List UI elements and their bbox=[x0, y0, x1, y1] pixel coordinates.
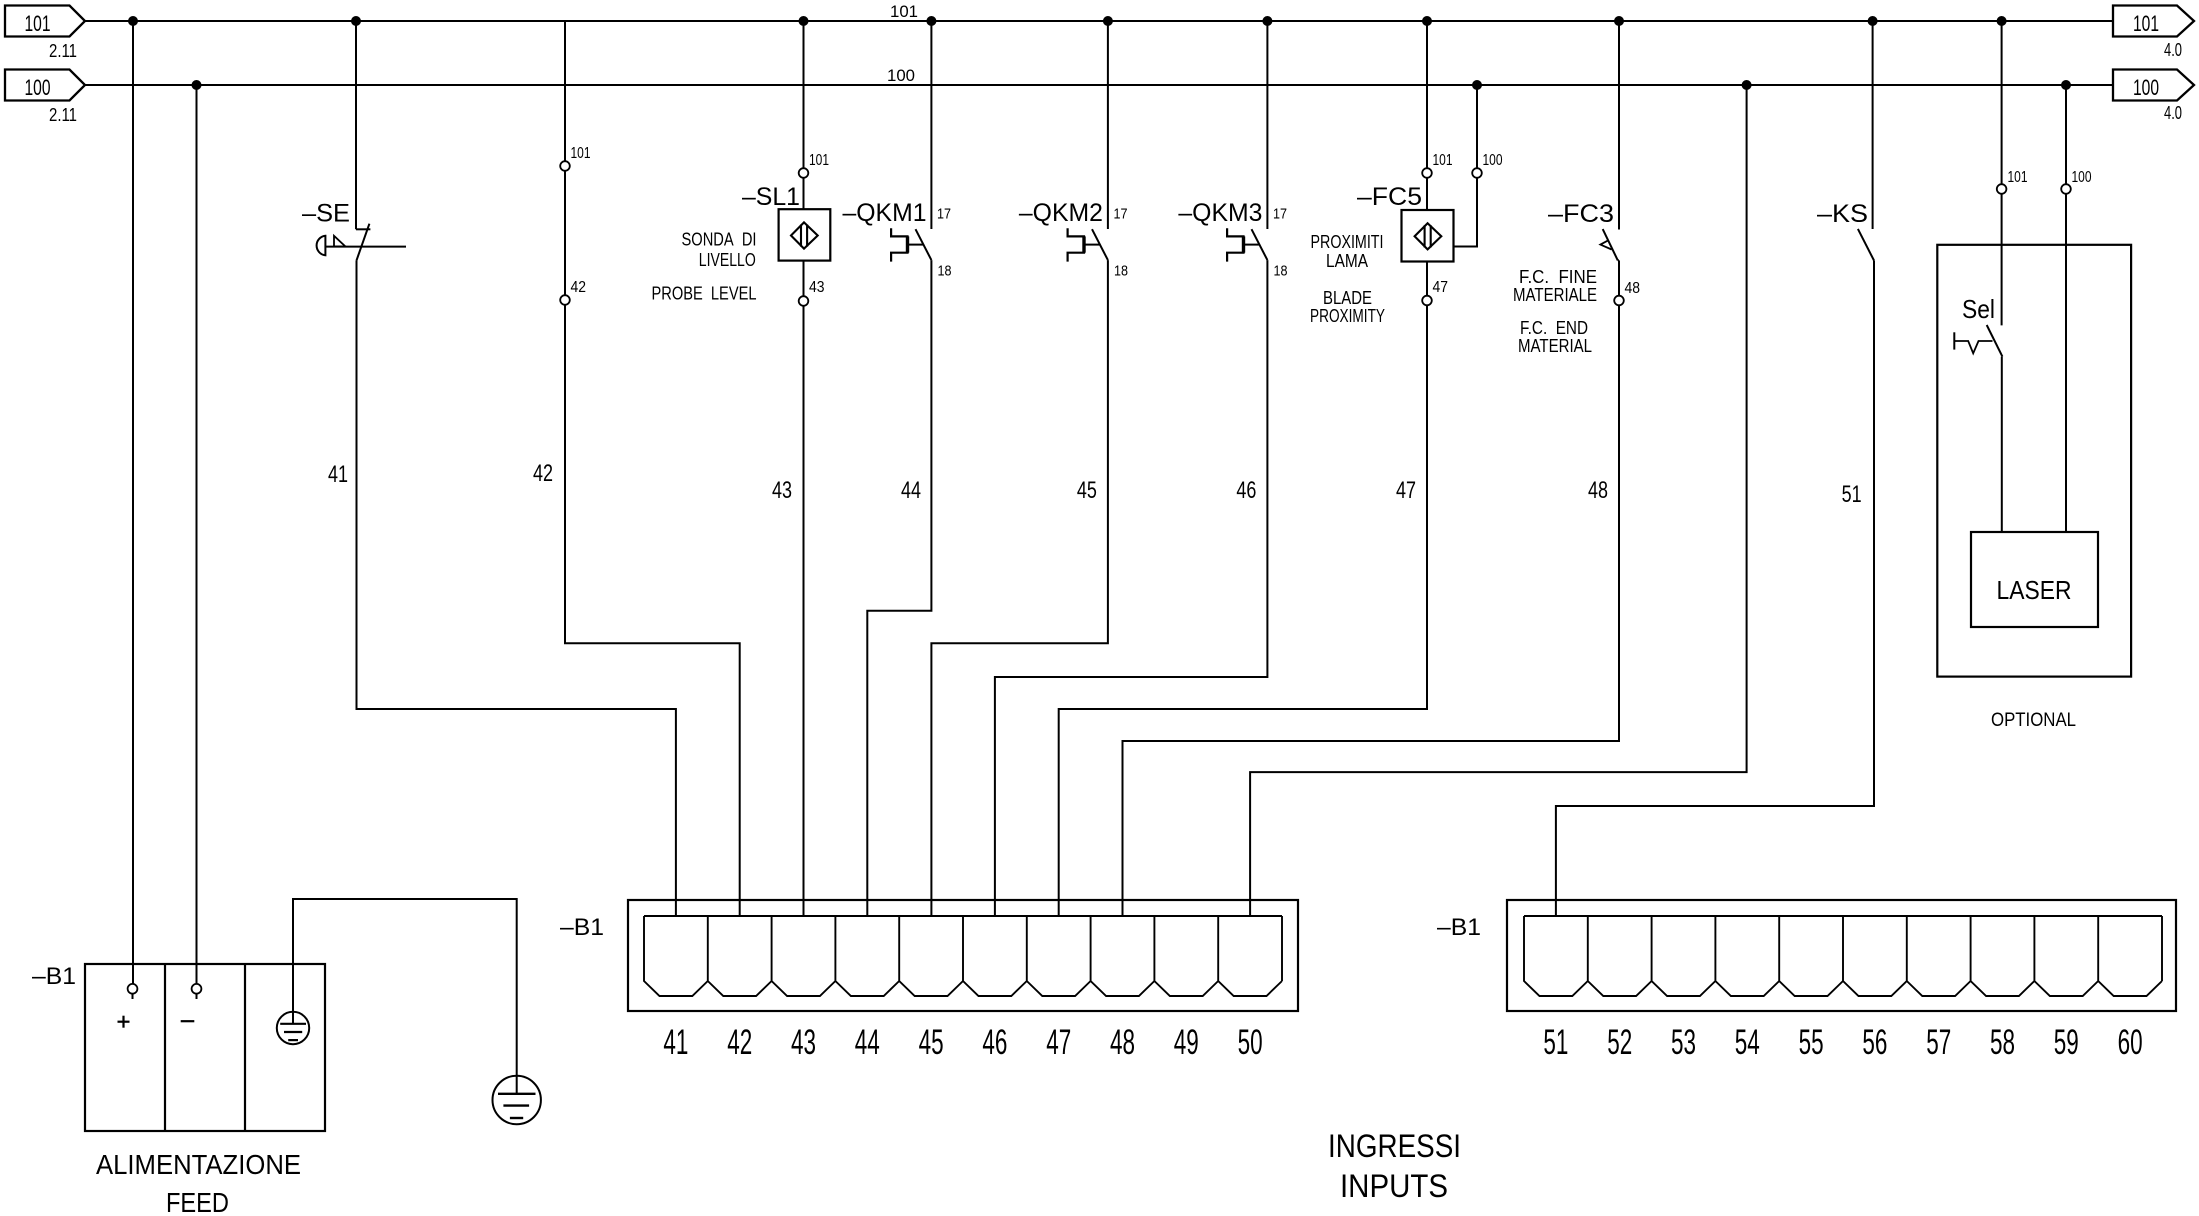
junction bus101 / SE bbox=[351, 16, 361, 26]
wire 48 (FC3 to terminal 48) bbox=[1123, 305, 1620, 916]
svg-text:INGRESSI: INGRESSI bbox=[1328, 1128, 1461, 1164]
plug label 43 bbox=[809, 279, 825, 296]
minus sign (B1 -) bbox=[181, 1020, 195, 1022]
svg-text:LAMA: LAMA bbox=[1326, 251, 1368, 271]
svg-text:MATERIAL: MATERIAL bbox=[1518, 336, 1592, 356]
svg-text:LIVELLO: LIVELLO bbox=[699, 250, 756, 270]
plug connector 48 bbox=[1614, 296, 1624, 306]
svg-text:18: 18 bbox=[1114, 263, 1128, 280]
plug connector 43 bbox=[799, 296, 809, 306]
svg-text:LASER: LASER bbox=[1997, 575, 2072, 605]
svg-text:–QKM1: –QKM1 bbox=[843, 199, 927, 227]
plug connector 101 (SL1) bbox=[799, 168, 809, 178]
label -QKM1 bbox=[843, 199, 927, 227]
terminal comb 41-50 bbox=[644, 916, 1282, 996]
caption OPTIONAL bbox=[1991, 710, 2076, 731]
junction bus100 / feed - bbox=[192, 80, 202, 90]
svg-text:46: 46 bbox=[982, 1023, 1007, 1062]
plug connector 42 bbox=[560, 295, 570, 305]
svg-text:44: 44 bbox=[855, 1023, 880, 1062]
svg-text:48: 48 bbox=[1625, 280, 1641, 297]
label -KS bbox=[1817, 200, 1868, 228]
svg-text:–B1: –B1 bbox=[1437, 914, 1481, 941]
terminal number 45 bbox=[919, 1023, 944, 1062]
svg-text:PROBE LEVEL: PROBE LEVEL bbox=[652, 284, 757, 304]
motor breaker aux contact QKM3 bbox=[1227, 21, 1267, 262]
wire KS upper bbox=[1872, 21, 1874, 229]
svg-text:58: 58 bbox=[1990, 1023, 2015, 1062]
wire 51 (KS to terminal 51) bbox=[1556, 261, 1874, 917]
svg-text:F.C. FINE: F.C. FINE bbox=[1519, 267, 1597, 287]
wire FC5 box to plug 47 bbox=[1426, 262, 1428, 296]
motor breaker aux contact QKM2 bbox=[1068, 21, 1108, 262]
svg-text:2.11: 2.11 bbox=[49, 105, 77, 125]
caption LIVELLO bbox=[699, 250, 756, 270]
pin label 17 (QKM2) bbox=[1114, 206, 1128, 223]
terminal number 53 bbox=[1671, 1023, 1696, 1062]
svg-text:PROXIMITY: PROXIMITY bbox=[1310, 306, 1385, 326]
svg-text:F.C. END: F.C. END bbox=[1520, 318, 1588, 338]
terminal number 48 bbox=[1110, 1023, 1135, 1062]
bus net label 100 bbox=[887, 66, 915, 85]
svg-text:48: 48 bbox=[1588, 477, 1608, 504]
caption INGRESSI bbox=[1328, 1128, 1461, 1164]
svg-text:17: 17 bbox=[937, 206, 951, 223]
terminal number 59 bbox=[2054, 1023, 2079, 1062]
plug label 101 (FC5) bbox=[1433, 152, 1453, 169]
plus sign (B1 +) bbox=[118, 1016, 130, 1028]
wire laser 100 lower bbox=[2065, 194, 2067, 532]
wire FC3 to plug 48 bbox=[1618, 260, 1619, 295]
svg-text:Sel: Sel bbox=[1962, 294, 1995, 324]
wire FC5 100 to box bbox=[1454, 178, 1478, 247]
svg-text:2.11: 2.11 bbox=[49, 41, 77, 61]
wire Sel to laser bbox=[2001, 357, 2003, 532]
svg-text:48: 48 bbox=[1110, 1023, 1135, 1062]
svg-text:FEED: FEED bbox=[166, 1187, 229, 1216]
wire number 46 bbox=[1236, 477, 1256, 504]
svg-text:100: 100 bbox=[25, 75, 51, 100]
junction bus101 / QKM3 bbox=[1262, 16, 1272, 26]
wire FC5 100 upper bbox=[1476, 85, 1478, 168]
pin label 18 (QKM3) bbox=[1274, 263, 1288, 280]
bus net label 101 bbox=[890, 2, 918, 21]
svg-text:44: 44 bbox=[901, 477, 921, 504]
svg-text:18: 18 bbox=[938, 263, 952, 280]
svg-text:101: 101 bbox=[809, 152, 829, 169]
net arrow 101 left (from 2.11) bbox=[5, 6, 85, 37]
svg-text:51: 51 bbox=[1842, 481, 1862, 508]
terminal number 42 bbox=[727, 1023, 752, 1062]
svg-text:–FC5: –FC5 bbox=[1357, 183, 1422, 211]
svg-text:4.0: 4.0 bbox=[2164, 40, 2182, 60]
svg-text:47: 47 bbox=[1046, 1023, 1071, 1062]
caption PROXIMITI bbox=[1311, 232, 1384, 252]
plug label 101 (wire 42) bbox=[571, 145, 591, 162]
junction bus101 / KS bbox=[1868, 16, 1878, 26]
svg-text:101: 101 bbox=[571, 145, 591, 162]
svg-text:52: 52 bbox=[1607, 1023, 1632, 1062]
terminal number 57 bbox=[1926, 1023, 1951, 1062]
wire feed + (101 to B1) bbox=[132, 21, 134, 984]
svg-text:–KS: –KS bbox=[1817, 200, 1868, 228]
wire number 45 bbox=[1077, 477, 1097, 504]
selector contact Sel bbox=[1954, 325, 2002, 357]
sheet ref 2.11 (net 100) bbox=[49, 105, 77, 125]
plug label 42 bbox=[571, 279, 587, 296]
wire SL1 box to plug 43 bbox=[803, 261, 805, 297]
junction bus101 / Sel bbox=[1997, 16, 2007, 26]
wire number 41 bbox=[328, 461, 348, 488]
caption PROXIMITY bbox=[1310, 306, 1385, 326]
svg-text:53: 53 bbox=[1671, 1023, 1696, 1062]
svg-text:18: 18 bbox=[1274, 263, 1288, 280]
svg-text:42: 42 bbox=[727, 1023, 752, 1062]
svg-text:100: 100 bbox=[2133, 75, 2159, 100]
svg-text:–SE: –SE bbox=[302, 200, 350, 228]
terminal circle - (B1) bbox=[192, 984, 202, 999]
plug label 48 bbox=[1625, 280, 1641, 297]
terminal number 46 bbox=[982, 1023, 1007, 1062]
earth ground symbol bbox=[493, 1076, 541, 1124]
key switch contact KS bbox=[1858, 229, 1874, 261]
caption SONDA DI bbox=[682, 230, 757, 250]
net arrow 100 right (to 4.0) bbox=[2113, 70, 2194, 101]
svg-text:59: 59 bbox=[2054, 1023, 2079, 1062]
terminal number 56 bbox=[1862, 1023, 1887, 1062]
terminal number 50 bbox=[1238, 1023, 1263, 1062]
wire number 48 bbox=[1588, 477, 1608, 504]
terminal number 51 bbox=[1543, 1023, 1568, 1062]
PE terminal symbol (B1 ground) bbox=[277, 1012, 309, 1044]
net arrow 100 left (from 2.11) bbox=[5, 70, 85, 101]
wire number 47 bbox=[1396, 477, 1416, 504]
caption LAMA bbox=[1326, 251, 1368, 271]
junction bus101 / SL1 bbox=[799, 16, 809, 26]
wire 42 lower (to terminal 42) bbox=[565, 305, 740, 916]
wire 42 from bus101 (upper) bbox=[564, 21, 566, 161]
wire 46 (QKM3 to terminal 46) bbox=[995, 260, 1268, 916]
plug label 100 (FC5) bbox=[1483, 152, 1503, 169]
svg-text:PROXIMITI: PROXIMITI bbox=[1311, 232, 1384, 252]
terminal number 55 bbox=[1799, 1023, 1824, 1062]
label Sel bbox=[1962, 294, 1995, 324]
plug label 101 (SL1) bbox=[809, 152, 829, 169]
terminal number 47 bbox=[1046, 1023, 1071, 1062]
laser unit box bbox=[1971, 532, 2098, 627]
plug connector 101 (Sel) bbox=[1997, 184, 2007, 194]
svg-text:ALIMENTAZIONE: ALIMENTAZIONE bbox=[96, 1149, 301, 1180]
junction bus100 / laser bbox=[2061, 80, 2071, 90]
terminal comb 51-60 bbox=[1524, 916, 2162, 996]
label -B1 (feed block) bbox=[32, 963, 76, 990]
junction bus100 / common bbox=[1742, 80, 1752, 90]
bus wire 101 bbox=[85, 20, 2113, 22]
plug connector 101 (wire 42) bbox=[560, 161, 570, 171]
plug label 47 bbox=[1433, 279, 1449, 296]
plug connector 101 (FC5) bbox=[1422, 168, 1432, 178]
svg-text:101: 101 bbox=[1433, 152, 1453, 169]
svg-text:BLADE: BLADE bbox=[1323, 288, 1372, 308]
svg-text:43: 43 bbox=[809, 279, 825, 296]
caption FEED bbox=[166, 1187, 229, 1216]
label -QKM2 bbox=[1019, 199, 1103, 227]
svg-text:–FC3: –FC3 bbox=[1548, 200, 1614, 228]
svg-text:INPUTS: INPUTS bbox=[1340, 1168, 1448, 1204]
svg-text:100: 100 bbox=[2072, 169, 2092, 186]
terminal block B1 feed box bbox=[85, 964, 325, 1131]
label -FC5 bbox=[1357, 183, 1422, 211]
sheet ref 2.11 (net 101) bbox=[49, 41, 77, 61]
wire Sel upper (bus101 to plug) bbox=[2001, 21, 2003, 184]
caption MATERIAL bbox=[1518, 336, 1592, 356]
junction bus101 / QKM2 bbox=[1103, 16, 1113, 26]
label -QKM3 bbox=[1178, 199, 1262, 227]
wire FC5 101 upper bbox=[1426, 21, 1428, 168]
svg-text:OPTIONAL: OPTIONAL bbox=[1991, 710, 2076, 731]
svg-text:MATERIALE: MATERIALE bbox=[1513, 285, 1597, 305]
svg-text:51: 51 bbox=[1543, 1023, 1568, 1062]
svg-text:101: 101 bbox=[25, 11, 51, 36]
terminal number 41 bbox=[663, 1023, 688, 1062]
caption INPUTS bbox=[1340, 1168, 1448, 1204]
wire 41 upper (bus101 to SE) bbox=[355, 21, 357, 229]
svg-text:–B1: –B1 bbox=[32, 963, 76, 990]
wire SL1 upper (bus101 to plug) bbox=[803, 21, 805, 168]
sheet ref 4.0 (net 100 right) bbox=[2164, 103, 2182, 123]
svg-text:56: 56 bbox=[1862, 1023, 1887, 1062]
svg-text:55: 55 bbox=[1799, 1023, 1824, 1062]
wire PE to earth bbox=[293, 899, 517, 1093]
wire SL1 to sensor box bbox=[803, 178, 805, 209]
mushroom actuator SE bbox=[317, 236, 406, 256]
svg-text:–SL1: –SL1 bbox=[742, 183, 800, 211]
svg-text:43: 43 bbox=[772, 477, 792, 504]
wire 47 (FC5 to terminal 47) bbox=[1059, 305, 1427, 916]
svg-text:41: 41 bbox=[328, 461, 348, 488]
motor breaker aux contact QKM1 bbox=[891, 21, 931, 262]
svg-text:–QKM2: –QKM2 bbox=[1019, 199, 1103, 227]
wire feed - (100 to B1) bbox=[196, 85, 198, 984]
terminal strip B1 (41-50) outer box bbox=[628, 900, 1298, 1011]
label LASER bbox=[1997, 575, 2072, 605]
svg-text:49: 49 bbox=[1174, 1023, 1199, 1062]
wire 43 lower (to terminal 43) bbox=[803, 306, 805, 916]
wire 44 (QKM1 to terminal 44) bbox=[867, 260, 931, 916]
junction bus101 / QKM1 bbox=[926, 16, 936, 26]
junction bus101 / feed + bbox=[128, 16, 138, 26]
wire number 44 bbox=[901, 477, 921, 504]
terminal circle + (B1) bbox=[128, 984, 138, 999]
svg-text:100: 100 bbox=[887, 66, 915, 85]
wire number 51 bbox=[1842, 481, 1862, 508]
sheet ref 4.0 (net 101 right) bbox=[2164, 40, 2182, 60]
wire FC3 upper bbox=[1618, 21, 1620, 230]
svg-text:SONDA DI: SONDA DI bbox=[682, 230, 757, 250]
caption F.C. FINE bbox=[1519, 267, 1597, 287]
pin label 17 (QKM1) bbox=[937, 206, 951, 223]
pin label 18 (QKM1) bbox=[938, 263, 952, 280]
wire laser 100 upper (bus100 to plug) bbox=[2065, 85, 2067, 184]
caption BLADE bbox=[1323, 288, 1372, 308]
junction bus101 / FC5 bbox=[1422, 16, 1432, 26]
label -FC3 bbox=[1548, 200, 1614, 228]
svg-text:17: 17 bbox=[1273, 206, 1287, 223]
wire 45 (QKM2 to terminal 45) bbox=[931, 260, 1108, 916]
svg-text:54: 54 bbox=[1735, 1023, 1760, 1062]
caption PROBE LEVEL bbox=[652, 284, 757, 304]
svg-text:101: 101 bbox=[890, 2, 918, 21]
net arrow 101 right (to 4.0) bbox=[2113, 6, 2194, 37]
proximity sensor FC5 bbox=[1402, 210, 1454, 262]
svg-text:–B1: –B1 bbox=[560, 914, 604, 941]
caption F.C. END bbox=[1520, 318, 1588, 338]
svg-text:101: 101 bbox=[2133, 11, 2159, 36]
wire 41 lower (SE to terminal 41) bbox=[357, 260, 676, 916]
wire Sel plug to contact bbox=[2001, 194, 2003, 326]
terminal number 49 bbox=[1174, 1023, 1199, 1062]
junction bus100 / FC5 bbox=[1472, 80, 1482, 90]
terminal number 44 bbox=[855, 1023, 880, 1062]
svg-text:43: 43 bbox=[791, 1023, 816, 1062]
caption ALIMENTAZIONE bbox=[96, 1149, 301, 1180]
svg-text:42: 42 bbox=[533, 460, 553, 487]
wire 42 middle bbox=[564, 171, 566, 295]
plug connector 47 bbox=[1422, 296, 1432, 306]
limit switch contact FC3 bbox=[1600, 229, 1617, 260]
emergency stop SE contact bbox=[356, 224, 370, 261]
svg-text:45: 45 bbox=[919, 1023, 944, 1062]
label -B1 (strip 51-60) bbox=[1437, 914, 1481, 941]
wire number 42 bbox=[533, 460, 553, 487]
terminal number 52 bbox=[1607, 1023, 1632, 1062]
svg-text:57: 57 bbox=[1926, 1023, 1951, 1062]
plug label 101 (Sel) bbox=[2008, 169, 2028, 186]
wire number 43 bbox=[772, 477, 792, 504]
pin label 17 (QKM3) bbox=[1273, 206, 1287, 223]
svg-text:50: 50 bbox=[1238, 1023, 1263, 1062]
svg-text:46: 46 bbox=[1236, 477, 1256, 504]
optional enclosure box bbox=[1937, 245, 2131, 677]
svg-text:17: 17 bbox=[1114, 206, 1128, 223]
svg-text:101: 101 bbox=[2008, 169, 2028, 186]
terminal number 54 bbox=[1735, 1023, 1760, 1062]
bus wire 100 bbox=[85, 84, 2113, 86]
svg-text:45: 45 bbox=[1077, 477, 1097, 504]
level probe sensor SL1 bbox=[779, 209, 831, 260]
svg-text:100: 100 bbox=[1483, 152, 1503, 169]
svg-text:47: 47 bbox=[1433, 279, 1449, 296]
plug connector 100 (FC5) bbox=[1472, 168, 1482, 178]
svg-text:47: 47 bbox=[1396, 477, 1416, 504]
svg-text:60: 60 bbox=[2118, 1023, 2143, 1062]
terminal strip B1 (51-60) outer box bbox=[1507, 900, 2176, 1011]
caption MATERIALE bbox=[1513, 285, 1597, 305]
plug label 100 (laser) bbox=[2072, 169, 2092, 186]
label -SE bbox=[302, 200, 350, 228]
plug connector 100 (laser) bbox=[2061, 184, 2071, 194]
wire common (bus100 to terminal 50) bbox=[1250, 85, 1747, 916]
terminal number 60 bbox=[2118, 1023, 2143, 1062]
svg-text:4.0: 4.0 bbox=[2164, 103, 2182, 123]
terminal number 58 bbox=[1990, 1023, 2015, 1062]
terminal number 43 bbox=[791, 1023, 816, 1062]
svg-text:42: 42 bbox=[571, 279, 587, 296]
label -SL1 bbox=[742, 183, 800, 211]
label -B1 (strip 41-50) bbox=[560, 914, 604, 941]
junction bus101 / FC3 bbox=[1614, 16, 1624, 26]
svg-text:–QKM3: –QKM3 bbox=[1178, 199, 1262, 227]
pin label 18 (QKM2) bbox=[1114, 263, 1128, 280]
svg-text:41: 41 bbox=[663, 1023, 688, 1062]
wire FC5 plug to box bbox=[1426, 178, 1428, 210]
